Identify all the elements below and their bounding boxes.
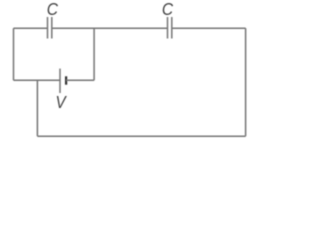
- wire right edge of inner loop: [93, 28, 95, 80]
- wire inner bottom-left segment: [14, 79, 61, 81]
- battery V short plate: [65, 76, 67, 84]
- svg-text:C: C: [162, 0, 174, 19]
- wire top-middle segment: [52, 27, 168, 29]
- svg-text:C: C: [47, 0, 59, 19]
- wire inner bottom-right segment: [66, 79, 94, 81]
- wire top-left segment: [14, 27, 48, 29]
- wire bottom edge: [37, 135, 245, 137]
- wire left edge of inner loop: [13, 28, 15, 80]
- wire top-right segment: [172, 27, 246, 29]
- capacitor C1: [48, 17, 52, 39]
- wire junction vertical: [36, 80, 38, 136]
- capacitor C2: [168, 17, 172, 39]
- svg-text:V: V: [56, 92, 68, 112]
- wire right edge: [245, 28, 247, 136]
- battery V long plate: [59, 69, 61, 93]
